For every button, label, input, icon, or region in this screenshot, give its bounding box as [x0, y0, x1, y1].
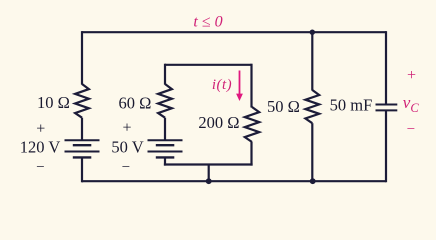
svg-text:−: − — [407, 121, 415, 137]
battery V2: plate 2 short — [156, 144, 175, 146]
svg-text:+: + — [122, 120, 131, 137]
node: junction dot bottom left — [206, 178, 212, 184]
wire: left branch bottom (battery V1 to bottom wire) — [81, 157, 83, 182]
current arrow i(t) — [239, 71, 241, 97]
wire: capacitor branch vertical bottom — [385, 110, 387, 182]
wire: 200-ohm branch vertical top — [250, 64, 252, 108]
svg-text:50 V: 50 V — [111, 138, 143, 157]
battery V1: plate 2 short — [73, 144, 92, 146]
wire: inner loop top horizontal (60-ohm branch to 200-ohm branch) — [165, 64, 252, 66]
wire: 200-ohm branch vertical bottom — [250, 142, 252, 166]
resistor 50 ohm (zigzag) — [305, 90, 319, 123]
svg-text:200 Ω: 200 Ω — [198, 113, 239, 132]
wire: 50-ohm branch vertical top — [311, 32, 313, 90]
svg-text:−: − — [36, 159, 44, 175]
wire: battery V2 bottom to inner bottom wire — [164, 157, 166, 165]
wire: 60-ohm branch between resistor and battery V2 — [164, 118, 166, 140]
svg-text:50 Ω: 50 Ω — [267, 97, 300, 116]
node: junction dot bottom (50-ohm branch) — [310, 178, 316, 184]
resistor 10 ohm (zigzag) — [75, 84, 89, 118]
svg-text:10 Ω: 10 Ω — [37, 93, 70, 112]
wire: main bottom horizontal — [82, 180, 386, 182]
svg-text:i(t): i(t) — [212, 77, 232, 93]
wire: capacitor branch vertical top — [385, 31, 387, 104]
svg-text:−: − — [122, 160, 130, 176]
svg-text:120 V: 120 V — [20, 138, 61, 157]
capacitor 50 mF: top plate — [376, 104, 398, 106]
resistor 60 ohm (zigzag) — [158, 84, 172, 118]
wire: inner loop bottom horizontal — [164, 163, 253, 165]
wire: left branch between 10-ohm and battery V1 — [81, 118, 83, 140]
battery V1 120V: plate 1 long — [65, 139, 100, 141]
resistor 200 ohm (zigzag) — [245, 107, 259, 142]
svg-text:+: + — [36, 121, 45, 138]
wire: 50-ohm branch vertical bottom — [311, 123, 313, 181]
svg-text:+: + — [407, 67, 416, 84]
battery V2: plate 4 short — [156, 156, 175, 158]
wire: left branch vertical top (from top wire to 10-ohm resistor) — [81, 31, 83, 84]
battery V2 50V: plate 1 long — [148, 139, 183, 141]
wire: 60-ohm branch vertical (corner to resistor) — [164, 64, 166, 85]
battery V2: plate 3 long — [148, 151, 183, 153]
battery V1: plate 3 long — [65, 151, 100, 153]
svg-text:50 mF: 50 mF — [330, 96, 373, 115]
svg-text:t ≤ 0: t ≤ 0 — [193, 14, 222, 31]
battery V1: plate 4 short — [73, 156, 92, 158]
wire: inner loop drop to bottom node — [208, 165, 210, 182]
node: junction dot top (50-ohm branch) — [310, 30, 315, 35]
capacitor 50 mF: bottom plate — [376, 109, 398, 111]
wire: outer top horizontal from left branch to capacitor branch — [82, 31, 386, 33]
svg-text:60 Ω: 60 Ω — [119, 94, 152, 113]
